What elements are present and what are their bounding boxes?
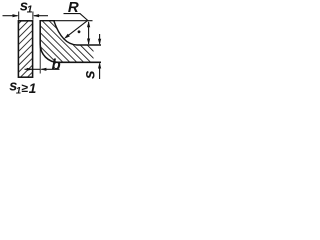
dimension b: left arrow bbox=[25, 68, 41, 70]
dimension s: upper arrow bbox=[99, 34, 101, 44]
dimension b: right arrow with tail bbox=[41, 68, 59, 70]
dimension b: extension line of plate 2 edge bbox=[39, 45, 41, 74]
dimension s1: right arrow bbox=[34, 15, 48, 17]
radius center dot bbox=[78, 30, 81, 33]
svg-text:1: 1 bbox=[27, 4, 33, 16]
svg-text:≥: ≥ bbox=[21, 81, 28, 95]
dimension R (vertical, flange height) arrows bbox=[88, 22, 90, 44]
plate 1 (left vertical plate, thickness s1) hatching bbox=[18, 21, 32, 77]
dimension s1: left arrow bbox=[3, 15, 18, 17]
svg-text:b: b bbox=[52, 57, 61, 74]
svg-text:s: s bbox=[81, 70, 98, 79]
svg-text:1: 1 bbox=[29, 81, 37, 96]
plate 2 (right flanged plate, bend radius R) hatching bbox=[40, 21, 93, 63]
dimension s1: extension lines bbox=[19, 12, 33, 20]
plate 2 outline: end face, inner curve, inner surface bbox=[40, 21, 102, 45]
plate 2 outline: outer left edge, outer bend radius, bottom surface bbox=[40, 20, 101, 62]
dimension s: lower arrow bbox=[99, 64, 101, 80]
plate 1 outline bbox=[18, 21, 32, 77]
R leader underline and kink bbox=[64, 14, 88, 21]
extension line from end face to R dimension bbox=[55, 20, 93, 22]
R leader arrow to inner radius bbox=[66, 20, 88, 37]
